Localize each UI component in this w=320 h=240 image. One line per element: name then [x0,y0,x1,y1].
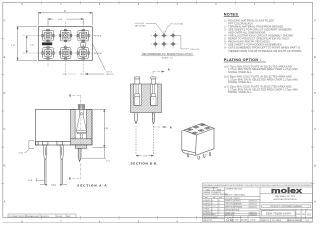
hatched terminal tower walls [71,109,93,144]
terminals row A [42,29,54,41]
sheet number row [261,219,309,222]
dimension: left heights [16,27,37,61]
svg-text:±0.1: ±0.1 [213,206,216,208]
svg-text:NICKEL OVER-ALL.: NICKEL OVER-ALL. [228,81,252,84]
isometric top holes [187,124,211,135]
svg-text:09:26:31: 09:26:31 [57,216,63,218]
dimension: bottom pitch [68,73,105,75]
svg-text:2019/07/10: 2019/07/10 [41,216,49,218]
third angle projection symbol [225,216,242,219]
svg-text:NOTE 8: NOTE 8 [106,74,114,76]
svg-text:SEE NOTES: SEE NOTES [203,220,212,222]
dimension: overall width [38,12,92,25]
left column grid [203,190,225,192]
svg-text:79108: 79108 [250,220,255,222]
svg-text:C: C [3,128,5,131]
svg-text:A: A [168,67,170,71]
pin 3 (sectioned) [78,148,81,161]
svg-text:molex: molex [271,186,303,195]
pin pitch dimension [40,184,67,185]
tolerance table [203,191,228,222]
svg-text:VIEWED FROM TOP WITH RECESS ON: VIEWED FROM TOP WITH RECESS ON RIGHT AS … [228,50,302,53]
svg-text:CURRENT REV DESC:: CURRENT REV DESC: [225,188,243,190]
left small dimension [25,141,34,153]
bottom left dimension [36,178,44,182]
terminal inside tower slot [76,109,86,138]
svg-text:NICKEL OVER-ALL.: NICKEL OVER-ALL. [228,91,252,94]
pin 1 [44,145,47,185]
svg-text:2019/05/14: 2019/05/14 [249,204,257,206]
svg-text:SHEET No.: SHEET No. [261,220,270,222]
svg-text:1998/04/23: 1998/04/23 [249,212,257,214]
section B cut marker bottom [72,164,81,179]
svg-text:SCALE : 1\1: SCALE : 1\1 [162,56,174,59]
pin 2 [60,145,63,185]
top view housing outline [38,27,92,61]
section B-B pins [135,113,155,124]
svg-text:RECOMMENDED P.C. BOARD HOLE LA: RECOMMENDED P.C. BOARD HOLE LAYOUT [142,53,193,56]
terminal standoff below housing [75,145,87,149]
svg-text:NICKEL OVER-ALL.: NICKEL OVER-ALL. [228,71,252,74]
svg-text:SHT 1: SHT 1 [67,216,72,218]
svg-text:VERTICAL RECEPTACLE: VERTICAL RECEPTACLE [273,198,297,201]
svg-text:2.54: 2.54 [51,185,56,187]
svg-text:DRWN: S.KULINSKI: DRWN: S.KULINSKI [225,201,241,203]
document number row [261,209,312,212]
svg-text:D: D [3,92,5,95]
svg-text:PRODUCT CUSTOMER DRAWING: PRODUCT CUSTOMER DRAWING [270,205,302,208]
svg-text:mm: mm [206,189,210,191]
terminal tip above housing [78,105,84,110]
svg-text:ROW B: ROW B [94,53,102,55]
hole layout leaders [146,23,189,49]
right column grid [260,193,313,195]
svg-text:PLATING OPTION :: PLATING OPTION : [224,58,261,62]
revision / signature rows [225,188,256,216]
cut line A top marker [153,72,166,85]
units / scale cells [203,186,218,189]
cut line A bottom marker [153,113,168,127]
left face [182,130,197,155]
housing body outline [36,109,93,145]
svg-text:NTS: NTS [217,189,222,191]
svg-text:REVISION: REVISION [306,210,312,212]
right face [196,128,215,155]
top face [184,124,214,136]
svg-text:SEE DETAIL: SEE DETAIL [135,25,147,28]
svg-text:B: B [69,177,71,181]
hole centerlines [151,31,179,49]
terminals inside slots [135,84,157,105]
circuit 1 marker box [81,42,86,46]
leader to CKT number [93,44,106,71]
right height dimension [82,109,107,158]
svg-text:SECTION A-A: SECTION A-A [77,183,107,187]
middle column grid [225,195,261,197]
svg-text:2019/05/14: 2019/05/14 [249,201,257,203]
svg-text:5.08 ±0.05: 5.08 ±0.05 [190,49,200,51]
terminal slots [134,84,158,105]
svg-text:C: C [314,128,316,131]
svg-text:NOTES: NOTES [224,13,239,17]
svg-text:±3.0°: ±3.0° [213,214,217,216]
document status strip bottom left [8,214,76,218]
tower centerline [80,105,82,147]
terminal tips above housing [135,77,157,84]
svg-text:A: A [170,126,172,130]
svg-text:inch: inch [219,197,222,199]
svg-text:CKT 6: CKT 6 [106,71,113,73]
section B-B housing block [131,84,162,113]
svg-text:SECTION B-B: SECTION B-B [131,161,158,165]
svg-text:B: B [69,93,71,97]
svg-text:PSD: PSD [297,214,302,216]
svg-text:1998/04/23: 1998/04/23 [249,215,257,217]
svg-text:SDA-79108-XXXX: SDA-79108-XXXX [266,212,291,216]
svg-text:D: D [314,92,316,95]
svg-text:SMD EVAL PCB, PTH: SMD EVAL PCB, PTH [275,195,295,198]
part number marker box [42,42,52,45]
svg-text:E3: E3 [308,212,312,216]
hole diamonds [153,33,158,38]
top view centerlines [23,22,95,75]
isometric pins [188,152,211,159]
svg-text:2019/05/17: 2019/05/17 [249,207,257,209]
svg-text:1 of 1: 1 of 1 [305,220,309,222]
pin pitch dimension B-B [136,126,154,156]
svg-text:ROW A: ROW A [94,35,102,38]
svg-text:0.77 ±0.05 DIA.: 0.77 ±0.05 DIA. [169,22,183,25]
terminals row B [42,47,54,59]
